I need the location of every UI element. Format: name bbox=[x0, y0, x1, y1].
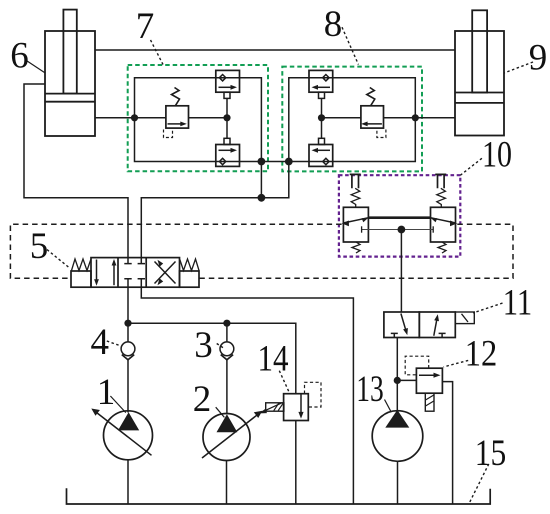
control block 8 boundary (green dashed) bbox=[282, 67, 422, 172]
node net B junction bbox=[258, 194, 266, 202]
stem box7 top bbox=[224, 92, 230, 98]
svg-text:8: 8 bbox=[324, 4, 343, 45]
check valve box8 top bbox=[309, 70, 333, 92]
leader 15 bbox=[470, 464, 489, 502]
valve 10 right flow arrow bbox=[431, 218, 455, 223]
node supply right bbox=[223, 320, 230, 327]
wire box7 inner loop bbox=[135, 78, 216, 162]
pump 2 bbox=[202, 411, 262, 504]
wire box8 input rail bbox=[289, 78, 309, 162]
pilot line right to valve5 bbox=[200, 224, 514, 278]
wire net B: valve5 top-right to rails bbox=[141, 162, 288, 258]
wire box7 center vertical bbox=[226, 98, 228, 138]
valve 10 left flow arrow bbox=[344, 218, 368, 223]
wire net A: cyl6 left port to valve5 top-left port bbox=[24, 84, 128, 258]
wire box8 middle valve to right node bbox=[384, 117, 416, 119]
check valve box7 top bbox=[216, 70, 240, 92]
check valve box8 bottom bbox=[309, 145, 333, 167]
leader 7 bbox=[151, 40, 164, 65]
leader 1 bbox=[110, 396, 125, 413]
valve 10 left square bbox=[343, 207, 368, 242]
pressure valve box7 middle bbox=[164, 88, 189, 138]
svg-text:3: 3 bbox=[194, 325, 213, 366]
svg-text:15: 15 bbox=[475, 433, 507, 474]
node box7 center junction bbox=[223, 114, 230, 121]
pilot line left to valve5 bbox=[10, 224, 341, 278]
node box7 left junction bbox=[131, 114, 138, 121]
check valve 3 bbox=[220, 323, 234, 414]
wire box8 node to cyl9 cap bbox=[415, 117, 455, 119]
directional valve 11 bbox=[384, 312, 474, 338]
wire valve5 P port down bbox=[127, 287, 129, 323]
wire heavy crossover line bbox=[368, 216, 430, 219]
directional valve 5 bbox=[71, 258, 199, 288]
tick right blocked port bbox=[432, 226, 434, 232]
wire box8 center vertical bbox=[321, 98, 323, 138]
leader 5 bbox=[47, 250, 69, 268]
svg-text:5: 5 bbox=[30, 226, 49, 267]
control block 7 boundary (green dashed) bbox=[128, 65, 268, 171]
solenoid valve5 left bbox=[71, 271, 91, 287]
svg-text:1: 1 bbox=[97, 372, 116, 413]
tank line 15 bbox=[67, 488, 491, 504]
check valve 4 bbox=[121, 323, 135, 412]
wire box7 bottom row to box8 bbox=[240, 161, 310, 163]
stem box7 bottom bbox=[224, 138, 230, 144]
leader 12 bbox=[444, 360, 469, 367]
svg-text:9: 9 bbox=[529, 38, 548, 79]
spring valve5 left bbox=[72, 259, 91, 271]
leader 11 bbox=[473, 303, 502, 313]
spring 10 right bottom bbox=[438, 242, 446, 253]
leader 6 bbox=[27, 61, 46, 73]
leader 8 bbox=[342, 27, 358, 64]
wire box7 output rail bbox=[240, 78, 262, 162]
tick left blocked port bbox=[361, 226, 363, 232]
check valve box7 bottom bbox=[216, 145, 240, 167]
spring 10 left bottom bbox=[352, 242, 360, 253]
spring 10 right top bbox=[437, 188, 446, 207]
svg-text:2: 2 bbox=[193, 379, 212, 420]
node box8 right junction bbox=[412, 114, 419, 121]
valve5 left cell arrows bbox=[96, 260, 98, 282]
svg-text:12: 12 bbox=[465, 334, 498, 375]
node rail junction right bbox=[285, 158, 293, 166]
svg-text:4: 4 bbox=[90, 322, 109, 363]
relief valve 12 bbox=[405, 356, 452, 504]
leader 3 bbox=[217, 344, 224, 349]
node supply left bbox=[124, 320, 131, 327]
leader 2 bbox=[216, 407, 225, 417]
wire box7 node to middle valve bbox=[135, 117, 166, 119]
wire box7 middle valve to center bbox=[189, 117, 228, 119]
cylinder 6 bbox=[45, 10, 95, 136]
wire rail drop to net B bbox=[260, 162, 262, 198]
wire box8 center to middle valve bbox=[322, 117, 361, 119]
svg-text:14: 14 bbox=[258, 339, 289, 380]
wire thin sense line bbox=[362, 229, 434, 231]
node box10 center junction bbox=[398, 226, 406, 234]
wire valve5 T port to tank bbox=[141, 287, 353, 504]
svg-text:6: 6 bbox=[10, 36, 29, 77]
pump 1 bbox=[91, 409, 152, 505]
relief valve 14 bbox=[259, 382, 321, 504]
plunger 10 left bbox=[350, 174, 361, 188]
leader 4 bbox=[107, 341, 121, 346]
cylinder 9 bbox=[455, 10, 504, 135]
pressure valve box8 middle bbox=[361, 88, 386, 138]
leader 9 bbox=[504, 62, 533, 73]
spring 10 left top bbox=[351, 188, 360, 207]
wire cyl6 cap port to box7 node bbox=[95, 117, 135, 119]
solenoid valve5 right bbox=[180, 271, 200, 287]
wire valve11 to pump13 bbox=[396, 338, 398, 411]
stem box8 bottom bbox=[319, 138, 325, 144]
svg-text:10: 10 bbox=[482, 135, 512, 176]
wire box10 to valve11 bbox=[400, 230, 402, 313]
svg-text:13: 13 bbox=[356, 369, 384, 410]
wire junction to valve12 bbox=[397, 379, 416, 381]
valve 10 right square bbox=[431, 207, 456, 242]
leader 13 bbox=[385, 400, 392, 412]
spring valve5 right bbox=[180, 259, 199, 271]
node rail junction left bbox=[258, 158, 266, 166]
wire supply header bbox=[128, 323, 296, 394]
node box8 center junction bbox=[318, 114, 325, 121]
svg-text:11: 11 bbox=[503, 283, 533, 324]
leader 10 bbox=[459, 158, 482, 176]
pump 13 bbox=[372, 410, 423, 504]
plunger 10 right bbox=[435, 174, 446, 188]
valve5 right cell cross arrows bbox=[155, 262, 176, 284]
svg-text:7: 7 bbox=[136, 6, 155, 47]
control block 10 boundary (purple dashed) bbox=[339, 175, 460, 256]
stem box8 top bbox=[319, 92, 325, 98]
wire box8 inner loop bbox=[333, 78, 416, 162]
leader 14 bbox=[279, 371, 289, 392]
node pump13 outlet junction bbox=[394, 377, 401, 384]
valve5 center blocked ports bbox=[124, 258, 131, 264]
wire top line cyl6 rod to cyl9 rod bbox=[95, 49, 455, 51]
